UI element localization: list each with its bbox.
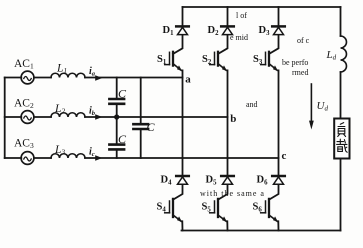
svg-text:S4: S4 <box>157 202 167 214</box>
wire leg2 D5 to S5 collector <box>218 185 228 200</box>
svg-text:l of: l of <box>236 11 247 20</box>
svg-text:D5: D5 <box>206 175 218 187</box>
wire phase a from inductor to node a <box>85 77 183 79</box>
svg-text:S6: S6 <box>253 202 263 214</box>
svg-text:D1: D1 <box>163 25 175 37</box>
svg-text:L3: L3 <box>54 144 65 157</box>
transistor S3 <box>261 52 280 73</box>
current arrow ib <box>95 114 102 119</box>
wire leg3 D6 to S6 collector <box>269 185 279 200</box>
capacitor C3 column a-c <box>133 78 148 159</box>
svg-text:C: C <box>118 87 127 101</box>
svg-text:S5: S5 <box>202 202 212 214</box>
wire bottom dc bus <box>182 230 341 232</box>
svg-text:e mid: e mid <box>230 33 248 42</box>
diode D6 <box>272 176 285 184</box>
inductor L2 <box>51 113 85 117</box>
svg-text:ib: ib <box>89 106 96 118</box>
svg-text:S1: S1 <box>157 54 167 66</box>
capacitor C1 column a-b <box>109 78 124 118</box>
capacitor C2 column b-c <box>109 117 124 158</box>
svg-text:AC2: AC2 <box>14 98 34 111</box>
transistor S6 <box>261 199 280 223</box>
svg-text:C: C <box>147 120 156 134</box>
current arrow ic <box>95 155 102 160</box>
wire leg2 S2 emitter down <box>227 70 229 174</box>
svg-text:and: and <box>246 100 258 109</box>
wire leg3 top bus to D3 <box>278 7 280 25</box>
svg-text:AC3: AC3 <box>14 138 34 151</box>
svg-text:C: C <box>118 132 127 146</box>
svg-text:ia: ia <box>89 66 96 78</box>
transistor S1 <box>165 52 184 73</box>
wire phase b from inductor to node b <box>85 116 228 118</box>
wire stub phase 3 to AC3 <box>5 157 22 159</box>
inductor L3 <box>51 154 85 158</box>
wire phase c from AC3 to inductor <box>34 157 51 159</box>
svg-text:be perfo: be perfo <box>282 58 308 67</box>
svg-text:ic: ic <box>89 147 95 159</box>
junction dot phase b capacitor <box>114 114 119 119</box>
wire top dc bus <box>183 6 341 8</box>
source AC2 <box>21 111 34 124</box>
svg-text:c: c <box>282 150 287 162</box>
wire phase a from AC1 to inductor <box>34 77 51 79</box>
wire Ld to load <box>340 72 342 119</box>
svg-text:L1: L1 <box>56 63 67 76</box>
wire leg1 top bus to D1 <box>182 7 184 25</box>
diode D2 <box>221 26 234 34</box>
wire leg2 top bus to D2 <box>227 7 229 25</box>
svg-text:a: a <box>185 74 191 86</box>
wire leg3 S6 emitter to bottom bus <box>277 221 279 230</box>
voltage arrow Ud <box>309 84 314 130</box>
svg-text:AC1: AC1 <box>14 58 34 71</box>
transistor S2 <box>210 52 229 73</box>
wire leg1 D4 to S4 collector <box>173 185 183 200</box>
transistor S5 <box>210 199 229 223</box>
svg-text:D3: D3 <box>259 25 271 37</box>
svg-text:rmed: rmed <box>292 68 308 77</box>
wire right branch top <box>340 7 342 36</box>
svg-text:S3: S3 <box>253 54 263 66</box>
load label glyph ZAI (carry) <box>337 139 348 152</box>
wire leg1 S4 emitter to bottom bus <box>181 221 183 230</box>
diode D3 <box>272 26 285 34</box>
svg-text:Ld: Ld <box>326 49 337 62</box>
svg-text:D4: D4 <box>161 175 173 187</box>
transistor S4 <box>165 199 184 223</box>
svg-text:D6: D6 <box>257 175 269 187</box>
load box <box>334 119 349 159</box>
source AC3 <box>21 152 34 165</box>
wire phase c from inductor to node c <box>85 157 279 159</box>
wire leg3 D3 to S3 collector <box>269 35 279 54</box>
current arrow ia <box>95 75 102 80</box>
diode D4 <box>176 176 189 184</box>
svg-text:L2: L2 <box>54 103 65 116</box>
wire stub phase 1 to AC1 <box>5 77 22 79</box>
source AC1 <box>21 71 34 84</box>
svg-text:Ud: Ud <box>317 100 329 113</box>
inductor Ld <box>341 36 347 72</box>
inductor L1 <box>51 73 85 77</box>
wire leg2 D2 to S2 collector <box>218 35 228 54</box>
wire leg2 S5 emitter to bottom bus <box>226 221 228 230</box>
load label glyph FU (load) <box>338 123 346 137</box>
diode D5 <box>221 176 234 184</box>
diode D1 <box>176 26 189 34</box>
wire left vertical bus <box>4 78 6 159</box>
wire load to bottom bus <box>340 159 342 231</box>
svg-text:S2: S2 <box>202 54 212 66</box>
wire leg3 S3 emitter down <box>278 70 280 174</box>
wire phase b from AC2 to inductor <box>34 116 51 118</box>
wire leg1 S1 emitter down <box>182 70 184 174</box>
svg-text:D2: D2 <box>208 25 220 37</box>
svg-text:with the same a: with the same a <box>200 189 265 198</box>
wire leg1 D1 to S1 collector <box>173 35 183 54</box>
wire stub phase 2 to AC2 <box>5 116 22 118</box>
scan bleed-through faint text <box>200 11 310 198</box>
svg-text:of c: of c <box>297 36 310 45</box>
svg-text:b: b <box>230 113 236 125</box>
